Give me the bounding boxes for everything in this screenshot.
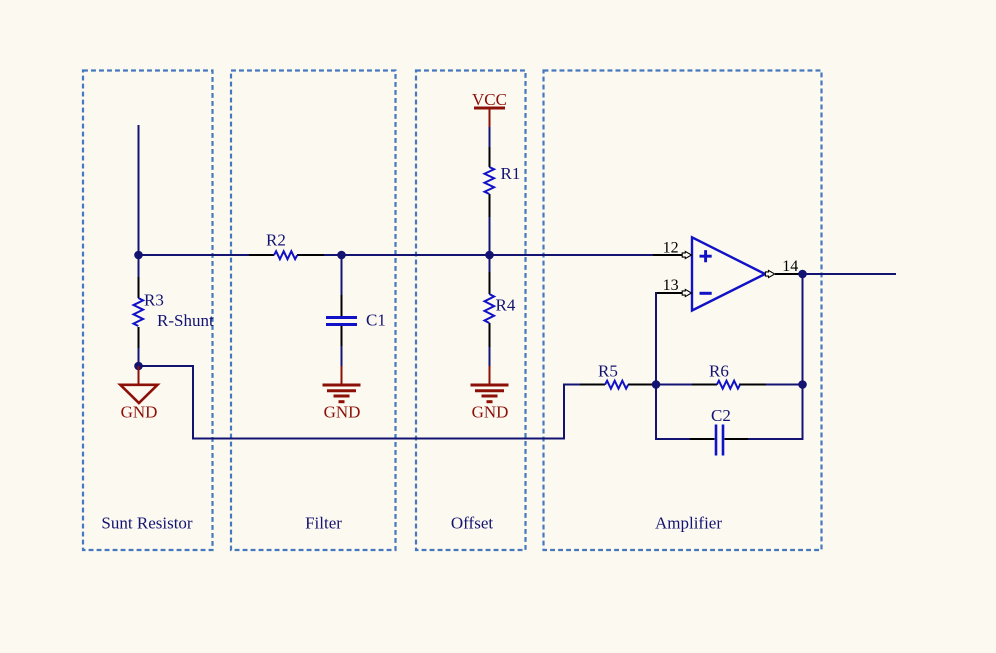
svg-text:R6: R6 bbox=[709, 362, 729, 381]
svg-text:GND: GND bbox=[121, 403, 158, 422]
svg-text:R2: R2 bbox=[266, 231, 286, 250]
svg-text:GND: GND bbox=[472, 403, 509, 422]
svg-text:R5: R5 bbox=[598, 362, 618, 381]
svg-text:C2: C2 bbox=[711, 406, 731, 425]
svg-text:VCC: VCC bbox=[472, 90, 507, 109]
svg-text:GND: GND bbox=[324, 403, 361, 422]
svg-text:13: 13 bbox=[663, 277, 679, 294]
svg-text:Offset: Offset bbox=[451, 514, 493, 533]
svg-text:C1: C1 bbox=[366, 311, 386, 330]
svg-text:Sunt Resistor: Sunt Resistor bbox=[101, 514, 192, 533]
svg-text:12: 12 bbox=[663, 239, 679, 256]
svg-text:R1: R1 bbox=[501, 164, 521, 183]
svg-text:14: 14 bbox=[782, 258, 798, 275]
svg-text:Amplifier: Amplifier bbox=[655, 514, 722, 533]
svg-text:R-Shunt: R-Shunt bbox=[157, 311, 214, 330]
svg-text:R3: R3 bbox=[144, 291, 164, 310]
svg-text:R4: R4 bbox=[496, 296, 516, 315]
svg-text:Filter: Filter bbox=[305, 514, 342, 533]
